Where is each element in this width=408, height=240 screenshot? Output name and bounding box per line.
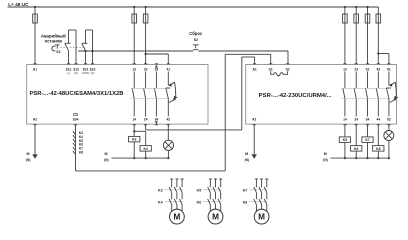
- svg-text:PSR-...-42-48UC/ESAM4/3X1/1X2B: PSR-...-42-48UC/ESAM4/3X1/1X2B: [30, 91, 124, 97]
- svg-text:62: 62: [387, 118, 391, 122]
- svg-text:K7: K7: [243, 189, 248, 193]
- svg-text:33: 33: [366, 67, 370, 71]
- svg-text:K8: K8: [376, 147, 380, 151]
- svg-text:34: 34: [366, 118, 370, 122]
- svg-text:Сброс: Сброс: [189, 31, 203, 36]
- svg-text:K8: K8: [79, 151, 83, 155]
- svg-text:42: 42: [166, 118, 170, 122]
- svg-text:41: 41: [166, 67, 170, 71]
- svg-text:S1: S1: [56, 50, 60, 54]
- svg-text:A2: A2: [252, 118, 256, 122]
- svg-text:M: M: [105, 152, 108, 156]
- svg-text:23: 23: [144, 67, 148, 71]
- svg-text:(CMP): (CMP): [82, 71, 90, 75]
- svg-text:S11: S11: [66, 67, 72, 71]
- svg-text:14: 14: [132, 118, 136, 122]
- svg-text:M: M: [245, 152, 248, 156]
- svg-text:S2: S2: [286, 67, 290, 71]
- svg-text:останов: останов: [45, 39, 63, 44]
- svg-text:K7: K7: [365, 138, 369, 142]
- svg-text:M: M: [212, 213, 219, 222]
- svg-text:24: 24: [354, 118, 358, 122]
- svg-text:M: M: [173, 213, 180, 222]
- svg-text:14: 14: [343, 118, 347, 122]
- svg-text:PSR-...-42-230UC/URM4/...: PSR-...-42-230UC/URM4/...: [259, 93, 333, 99]
- svg-text:23: 23: [354, 67, 358, 71]
- svg-text:K8: K8: [243, 200, 248, 204]
- svg-text:K5: K5: [343, 138, 347, 142]
- svg-text:K5: K5: [197, 189, 202, 193]
- svg-text:K3: K3: [132, 138, 136, 142]
- svg-text:S2: S2: [194, 38, 198, 42]
- svg-text:(+): (+): [67, 71, 70, 75]
- svg-text:A2: A2: [33, 118, 37, 122]
- svg-text:S1: S1: [269, 67, 273, 71]
- svg-text:33: 33: [155, 67, 159, 71]
- svg-text:(Θ): (Θ): [74, 71, 78, 75]
- svg-text:K6: K6: [197, 200, 202, 204]
- svg-text:S34: S34: [73, 118, 79, 122]
- svg-text:L+ 48 UC: L+ 48 UC: [8, 2, 29, 7]
- svg-text:S21: S21: [83, 67, 89, 71]
- svg-text:K4: K4: [144, 147, 148, 151]
- svg-text:43: 43: [376, 67, 380, 71]
- svg-text:(N): (N): [26, 158, 30, 162]
- svg-text:44: 44: [376, 118, 380, 122]
- svg-text:A1: A1: [252, 67, 256, 71]
- svg-text:K3: K3: [158, 189, 163, 193]
- svg-text:(N): (N): [104, 158, 108, 162]
- svg-text:24: 24: [144, 118, 148, 122]
- svg-text:S22: S22: [90, 67, 96, 71]
- svg-text:13: 13: [132, 67, 136, 71]
- svg-text:61: 61: [387, 67, 391, 71]
- svg-text:A1: A1: [33, 67, 37, 71]
- svg-text:M: M: [27, 152, 30, 156]
- svg-text:K4: K4: [158, 200, 163, 204]
- svg-text:M: M: [324, 152, 327, 156]
- svg-text:K6: K6: [354, 147, 358, 151]
- svg-text:(N): (N): [245, 158, 249, 162]
- svg-text:(N): (N): [323, 158, 327, 162]
- svg-text:M: M: [258, 213, 265, 222]
- svg-text:(Θ): (Θ): [91, 71, 95, 75]
- svg-text:S12: S12: [73, 67, 79, 71]
- svg-text:13: 13: [343, 67, 347, 71]
- svg-text:34: 34: [155, 118, 159, 122]
